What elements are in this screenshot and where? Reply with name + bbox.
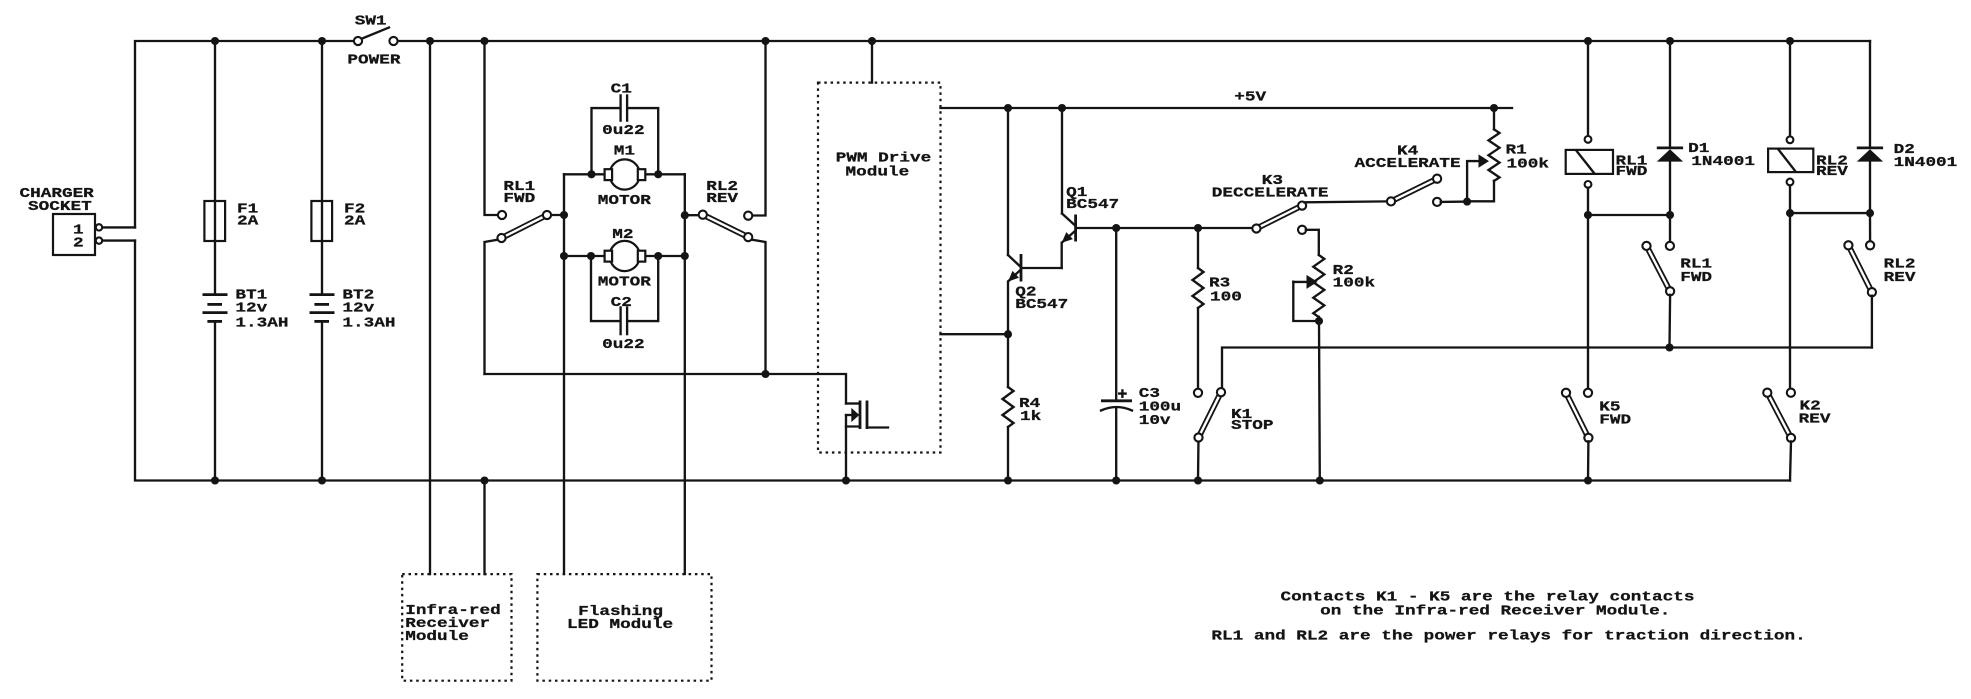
node junction R1 bottom wiper xyxy=(1463,198,1471,206)
wire +5V rail from PWM module xyxy=(941,107,1513,109)
node junction R2 bottom wiper xyxy=(1315,317,1323,325)
svg-text:1k: 1k xyxy=(1020,408,1042,424)
node junction base line R3 xyxy=(1194,224,1202,232)
svg-text:C1: C1 xyxy=(611,81,632,97)
resistor R3 100 xyxy=(1197,228,1199,268)
wire RL2 coil bottom to D2 anode xyxy=(1790,212,1870,214)
node junction bottom rail R2 xyxy=(1316,476,1324,484)
contact RL1 FWD (motor side) xyxy=(502,215,548,238)
node junction top rail RL1 coil xyxy=(1584,37,1592,45)
capacitor C1 xyxy=(592,108,619,174)
svg-text:FWD: FWD xyxy=(1599,412,1631,428)
node junction top rail RL2 contact feed xyxy=(761,37,769,45)
svg-text:0u22: 0u22 xyxy=(602,123,644,139)
node junction PWM output xyxy=(1004,330,1012,338)
node junction C1 right xyxy=(654,170,662,178)
relay coil RL1 FWD xyxy=(1587,41,1589,136)
svg-text:DECCELERATE: DECCELERATE xyxy=(1212,185,1329,201)
wire RL2 rev contact to motor bus right xyxy=(685,214,700,216)
node junction top rail IR feed xyxy=(426,37,434,45)
svg-text:1N4001: 1N4001 xyxy=(1894,155,1958,171)
svg-text:2: 2 xyxy=(73,235,84,251)
potentiometer R2 100k xyxy=(1298,226,1306,234)
contact K3 DECCELERATE xyxy=(1256,206,1302,229)
node junction motor bus right RL2 xyxy=(681,211,689,219)
wire K3 to K4 xyxy=(1305,200,1388,203)
diode D2 1N4001 xyxy=(1869,41,1871,147)
node junction top rail RL1 contact feed xyxy=(480,37,488,45)
svg-text:M1: M1 xyxy=(614,143,635,159)
node junction motor return RL2 xyxy=(761,370,769,378)
svg-text:Module: Module xyxy=(846,164,910,180)
capacitor C3 100u xyxy=(1115,228,1117,400)
capacitor C2 xyxy=(591,256,619,321)
svg-text:10v: 10v xyxy=(1139,412,1171,428)
wire RL2 rev contact lower to motor return xyxy=(751,240,766,375)
transistor Q2 BC547 xyxy=(1007,108,1009,255)
svg-text:100k: 100k xyxy=(1333,275,1376,291)
contact RL2 REV (relay output) xyxy=(1848,245,1872,292)
svg-text:SOCKET: SOCKET xyxy=(28,199,92,215)
svg-text:2A: 2A xyxy=(344,213,366,229)
node junction top rail D1 xyxy=(1666,37,1674,45)
wire motor bus right rail xyxy=(684,174,686,574)
svg-text:RL1 and RL2 are the power rela: RL1 and RL2 are the power relays for tra… xyxy=(1211,628,1805,644)
wire top supply rail xyxy=(135,41,354,227)
svg-text:FWD: FWD xyxy=(1680,270,1712,286)
node junction bottom rail BT2 xyxy=(318,476,326,484)
svg-text:100k: 100k xyxy=(1507,156,1550,172)
module PWM Drive (dashed box) xyxy=(818,83,941,453)
svg-text:REV: REV xyxy=(706,190,738,206)
svg-text:FWD: FWD xyxy=(503,190,535,206)
node junction top rail F2 xyxy=(318,37,326,45)
contact K4 ACCELERATE xyxy=(1391,179,1437,202)
svg-text:12v: 12v xyxy=(235,300,267,316)
wire top rail to RL1 fwd contact xyxy=(485,41,499,215)
svg-text:MOTOR: MOTOR xyxy=(598,193,651,209)
motor M1 xyxy=(610,159,640,189)
svg-text:REV: REV xyxy=(1816,164,1848,180)
battery BT2 xyxy=(310,293,335,296)
wire RL1 coil junction down to K5 xyxy=(1587,215,1589,389)
node junction bottom rail K1 xyxy=(1194,476,1202,484)
fuse F1 xyxy=(214,41,216,295)
svg-text:MOTOR: MOTOR xyxy=(598,274,651,290)
svg-text:BC547: BC547 xyxy=(1015,297,1068,313)
node junction bottom rail R4 xyxy=(1004,476,1012,484)
svg-text:Module: Module xyxy=(405,629,469,645)
node junction motor bus left RL1 xyxy=(560,211,568,219)
svg-text:M2: M2 xyxy=(612,226,633,242)
wire PWM module output to Q2 emitter xyxy=(941,333,1009,335)
svg-text:SW1: SW1 xyxy=(355,13,387,29)
node junction bottom rail K5 xyxy=(1584,476,1592,484)
wire bottom return rail xyxy=(135,241,1790,481)
wire RL1 coil bottom to D1 anode xyxy=(1588,214,1670,216)
svg-text:1N4001: 1N4001 xyxy=(1691,154,1755,170)
node junction RL2 coil bottom xyxy=(1786,209,1794,217)
wire charger pin2 to bottom rail xyxy=(103,239,136,241)
svg-text:POWER: POWER xyxy=(347,52,400,68)
svg-text:REV: REV xyxy=(1884,270,1916,286)
contact RL1 FWD (relay output) xyxy=(1647,246,1671,291)
node junction C2 right xyxy=(654,252,662,260)
node junction bottom rail MOSFET source xyxy=(842,476,850,484)
wire top rail down to IR module xyxy=(429,41,431,574)
svg-text:2A: 2A xyxy=(237,213,259,229)
module Flashing LED (dashed box) xyxy=(537,574,711,681)
node junction D2 anode xyxy=(1866,209,1874,217)
svg-text:+5V: +5V xyxy=(1234,89,1266,105)
wire bottom rail down to IR module xyxy=(483,481,485,575)
wire RL1 fwd contact to motor bus left xyxy=(551,214,565,216)
wire motor bus left rail xyxy=(563,174,565,574)
svg-text:1.3AH: 1.3AH xyxy=(235,315,288,331)
wire RL1 fwd contact lower to motor return xyxy=(485,240,500,375)
wire charger pin1 to top rail xyxy=(103,226,136,228)
battery BT1 xyxy=(203,293,228,296)
svg-text:BC547: BC547 xyxy=(1066,197,1119,213)
charger socket (pins 1,2) xyxy=(53,214,95,255)
svg-text:1.3AH: 1.3AH xyxy=(342,315,395,331)
node junction C1 left xyxy=(587,170,595,178)
contact K1 STOP xyxy=(1222,348,1872,389)
wire D1 junction to RL1 contact xyxy=(1669,215,1671,242)
node junction K5 line from RL1 contact xyxy=(1665,343,1673,351)
transistor Q1 BC547 xyxy=(1061,108,1063,214)
wire top rail to RL2 rev contact xyxy=(752,41,766,216)
node junction D1 anode xyxy=(1666,211,1674,219)
node junction base line C3 xyxy=(1112,224,1120,232)
svg-text:100: 100 xyxy=(1210,289,1242,305)
wire D2 junction to RL2 contact xyxy=(1869,213,1871,242)
node junction bottom rail BT1 xyxy=(211,476,219,484)
diode D1 1N4001 xyxy=(1669,41,1671,147)
node junction RL1 coil bottom xyxy=(1584,211,1592,219)
wire motor return to MOSFET drain xyxy=(485,374,847,404)
transistor MOSFET (inside PWM Drive Module) xyxy=(846,402,859,404)
node junction +5V Q2 collector xyxy=(1004,104,1012,112)
fuse F2 xyxy=(321,41,323,295)
svg-text:LED Module: LED Module xyxy=(567,617,673,633)
node junction C2 left xyxy=(587,252,595,260)
node junction bottom rail C3 xyxy=(1112,476,1120,484)
svg-text:REV: REV xyxy=(1799,411,1831,427)
node junction bottom rail IR module xyxy=(480,476,488,484)
contact K2 REV xyxy=(1767,393,1791,438)
node junction top rail PWM feed xyxy=(868,37,876,45)
contact RL2 REV (motor side) xyxy=(703,215,748,237)
svg-text:FWD: FWD xyxy=(1616,164,1648,180)
motor M2 xyxy=(610,241,640,271)
svg-text:C2: C2 xyxy=(611,295,632,311)
svg-text:12v: 12v xyxy=(342,300,374,316)
svg-text:0u22: 0u22 xyxy=(602,337,644,353)
svg-text:ACCELERATE: ACCELERATE xyxy=(1355,155,1461,171)
wire K4 to R1 junction xyxy=(1441,200,1467,203)
relay coil RL2 REV xyxy=(1789,41,1791,137)
svg-text:on the Infra-red Receiver Modu: on the Infra-red Receiver Module. xyxy=(1320,603,1670,619)
resistor R4 1k xyxy=(1007,334,1009,387)
wire RL2 coil junction down to K2 xyxy=(1789,213,1791,389)
wire M2 feed xyxy=(564,255,685,257)
node junction +5V Q1 collector xyxy=(1058,104,1066,112)
switch SW1 POWER xyxy=(361,28,389,40)
node junction top rail RL2 coil xyxy=(1786,37,1794,45)
node junction motor bus left M2 xyxy=(560,252,568,260)
contact K5 FWD xyxy=(1566,393,1588,438)
wire top rail to PWM module xyxy=(871,41,873,83)
node junction motor bus right M2 xyxy=(681,252,689,260)
module Infra-red Receiver (dashed box) xyxy=(402,574,511,681)
node junction top rail F1 xyxy=(211,37,219,45)
svg-text:STOP: STOP xyxy=(1231,418,1273,434)
wire M1 feed xyxy=(564,173,685,175)
potentiometer R1 100k xyxy=(1493,108,1495,129)
node junction +5V R1 xyxy=(1490,104,1498,112)
